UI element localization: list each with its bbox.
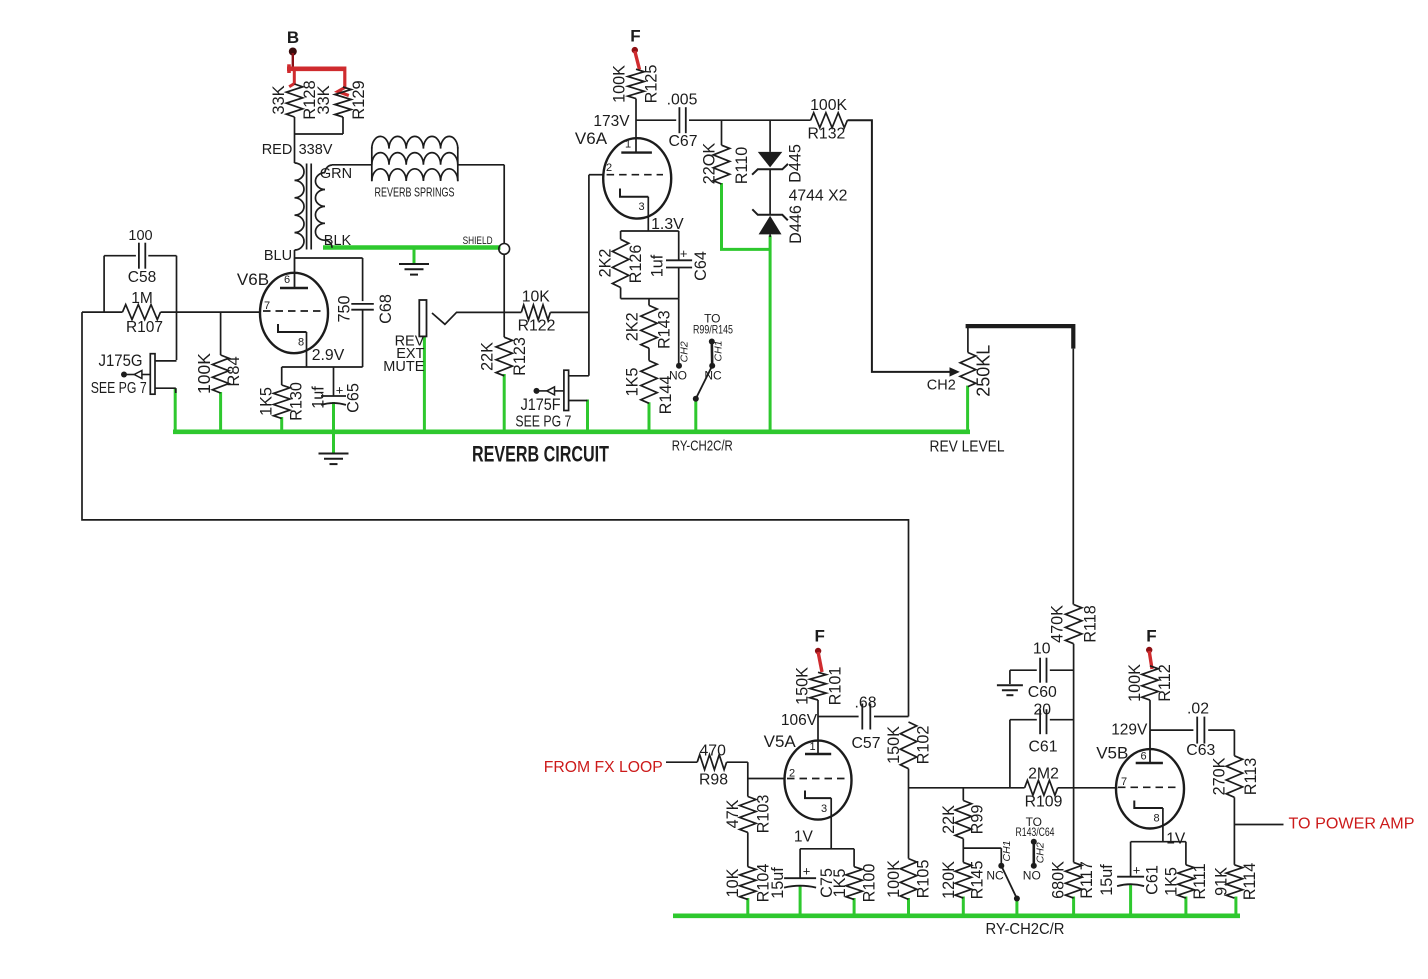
- svg-text:V6B: V6B: [237, 270, 269, 289]
- svg-text:100K: 100K: [810, 97, 847, 114]
- svg-text:1: 1: [625, 139, 631, 151]
- svg-text:C61: C61: [1029, 739, 1058, 756]
- svg-text:1K5: 1K5: [831, 869, 849, 898]
- svg-text:1: 1: [809, 741, 815, 753]
- svg-text:100K: 100K: [885, 860, 903, 898]
- svg-text:3: 3: [821, 803, 827, 815]
- svg-text:R114: R114: [1241, 863, 1259, 901]
- svg-text:R99: R99: [968, 805, 986, 835]
- svg-text:129V: 129V: [1111, 722, 1148, 739]
- svg-text:SHIELD: SHIELD: [463, 235, 493, 247]
- svg-text:R103: R103: [754, 795, 772, 834]
- svg-text:10: 10: [1033, 641, 1051, 658]
- svg-text:NO: NO: [1023, 869, 1041, 883]
- svg-text:R107: R107: [126, 319, 163, 336]
- svg-text:V6A: V6A: [575, 129, 608, 148]
- svg-text:SEE PG 7: SEE PG 7: [515, 414, 571, 431]
- svg-text:R98: R98: [699, 772, 728, 789]
- svg-text:.005: .005: [667, 92, 698, 109]
- svg-text:2: 2: [789, 768, 795, 780]
- svg-text:173V: 173V: [593, 113, 630, 130]
- svg-text:470K: 470K: [1048, 605, 1066, 643]
- svg-text:R143/C64: R143/C64: [1016, 825, 1055, 839]
- svg-text:2M2: 2M2: [1028, 766, 1059, 783]
- svg-text:BLU: BLU: [264, 248, 292, 264]
- svg-text:+: +: [680, 246, 688, 261]
- svg-text:C63: C63: [1186, 742, 1215, 759]
- svg-text:V5A: V5A: [764, 732, 797, 751]
- svg-text:R132: R132: [808, 126, 846, 143]
- svg-text:R109: R109: [1025, 794, 1063, 811]
- svg-text:22K: 22K: [478, 342, 496, 371]
- svg-text:BLK: BLK: [324, 233, 352, 249]
- svg-text:33K: 33K: [270, 85, 288, 114]
- svg-text:NC: NC: [986, 869, 1004, 883]
- svg-text:+: +: [803, 864, 811, 879]
- svg-text:REVERB SPRINGS: REVERB SPRINGS: [375, 185, 455, 200]
- svg-text:R84: R84: [225, 356, 243, 386]
- svg-text:R118: R118: [1081, 605, 1099, 643]
- svg-text:F: F: [630, 27, 640, 46]
- svg-text:C65: C65: [344, 383, 362, 413]
- svg-text:270K: 270K: [1211, 757, 1229, 795]
- svg-text:R143: R143: [655, 310, 673, 349]
- svg-text:SEE PG 7: SEE PG 7: [91, 380, 147, 397]
- svg-text:7: 7: [264, 300, 270, 312]
- svg-text:CH2: CH2: [927, 378, 956, 394]
- svg-text:10K: 10K: [724, 868, 742, 897]
- svg-text:.68: .68: [855, 695, 877, 712]
- svg-text:R100: R100: [861, 864, 879, 903]
- svg-text:FROM FX LOOP: FROM FX LOOP: [544, 759, 663, 776]
- svg-text:10K: 10K: [522, 289, 551, 306]
- svg-text:NO: NO: [669, 369, 687, 383]
- svg-text:.02: .02: [1187, 701, 1209, 718]
- svg-text:MUTE: MUTE: [383, 359, 424, 375]
- svg-text:22K: 22K: [940, 805, 958, 834]
- svg-text:8: 8: [1153, 813, 1159, 825]
- svg-text:100K: 100K: [194, 353, 214, 394]
- svg-text:47K: 47K: [724, 799, 742, 828]
- svg-text:R113: R113: [1242, 758, 1260, 796]
- svg-text:R117: R117: [1078, 861, 1096, 899]
- svg-text:15uf: 15uf: [1098, 864, 1116, 896]
- svg-text:C60: C60: [1028, 684, 1057, 701]
- svg-text:100: 100: [128, 228, 152, 244]
- svg-text:R126: R126: [627, 245, 645, 284]
- svg-text:R112: R112: [1156, 664, 1174, 702]
- svg-text:1V: 1V: [1166, 831, 1186, 848]
- svg-text:33K: 33K: [315, 85, 333, 114]
- svg-text:106V: 106V: [781, 712, 818, 729]
- svg-text:RED: RED: [262, 142, 293, 158]
- svg-text:2.9V: 2.9V: [312, 347, 345, 364]
- svg-text:R129: R129: [350, 80, 368, 119]
- svg-text:R145: R145: [968, 861, 986, 900]
- svg-text:RY-CH2C/R: RY-CH2C/R: [672, 439, 733, 455]
- svg-text:250KL: 250KL: [974, 345, 994, 397]
- svg-text:CH1: CH1: [713, 340, 725, 361]
- svg-text:6: 6: [284, 274, 290, 286]
- svg-text:V5B: V5B: [1096, 744, 1128, 763]
- svg-text:R130: R130: [287, 382, 305, 421]
- svg-text:8: 8: [298, 337, 304, 349]
- svg-text:+: +: [1133, 863, 1141, 878]
- svg-text:TO POWER AMP: TO POWER AMP: [1289, 816, 1415, 833]
- svg-text:J175F: J175F: [521, 396, 561, 414]
- svg-text:R102: R102: [915, 726, 933, 765]
- svg-text:B: B: [287, 28, 299, 47]
- svg-text:C67: C67: [669, 133, 698, 150]
- svg-text:R105: R105: [915, 860, 933, 899]
- svg-text:R99/R145: R99/R145: [693, 323, 733, 337]
- svg-text:100K: 100K: [1126, 664, 1144, 702]
- svg-text:R101: R101: [826, 667, 844, 706]
- svg-text:120K: 120K: [940, 861, 958, 899]
- svg-text:C58: C58: [128, 269, 156, 286]
- svg-text:6: 6: [1140, 751, 1146, 763]
- svg-text:R110: R110: [733, 147, 751, 185]
- svg-text:2K2: 2K2: [596, 249, 614, 278]
- svg-text:REV LEVEL: REV LEVEL: [930, 439, 1005, 456]
- svg-text:GRN: GRN: [320, 166, 352, 182]
- svg-text:1K5: 1K5: [624, 368, 642, 397]
- svg-text:750: 750: [335, 295, 353, 322]
- svg-text:680K: 680K: [1049, 861, 1067, 899]
- svg-text:1K5: 1K5: [258, 387, 276, 416]
- svg-text:7: 7: [1121, 776, 1127, 788]
- svg-text:R122: R122: [518, 318, 556, 335]
- svg-text:150K: 150K: [794, 667, 812, 705]
- svg-text:D445: D445: [786, 144, 804, 183]
- svg-text:J175G: J175G: [99, 352, 143, 370]
- svg-text:R104: R104: [754, 864, 772, 903]
- svg-text:2K2: 2K2: [624, 312, 642, 341]
- svg-text:D446: D446: [787, 205, 805, 244]
- svg-text:RY-CH2C/R: RY-CH2C/R: [986, 921, 1065, 938]
- svg-text:F: F: [815, 627, 825, 646]
- svg-text:R125: R125: [643, 65, 661, 104]
- svg-text:1M: 1M: [131, 290, 153, 307]
- svg-text:C68: C68: [377, 294, 395, 324]
- svg-text:1V: 1V: [794, 829, 814, 846]
- svg-text:100K: 100K: [611, 65, 629, 103]
- svg-text:150K: 150K: [885, 726, 903, 764]
- svg-text:CH1: CH1: [1001, 840, 1013, 861]
- svg-text:+: +: [336, 383, 344, 398]
- svg-text:4744 X2: 4744 X2: [789, 188, 848, 205]
- svg-text:CH2: CH2: [678, 341, 690, 362]
- svg-text:1K5: 1K5: [1162, 867, 1180, 896]
- svg-text:2: 2: [606, 162, 612, 174]
- svg-text:91K: 91K: [1212, 867, 1230, 896]
- svg-text:C61: C61: [1143, 865, 1161, 895]
- svg-text:3: 3: [638, 201, 644, 213]
- svg-text:338V: 338V: [299, 142, 333, 158]
- svg-text:R111: R111: [1191, 863, 1209, 899]
- svg-text:1uf: 1uf: [649, 254, 667, 277]
- svg-text:C64: C64: [692, 251, 710, 281]
- svg-text:CH2: CH2: [1034, 842, 1046, 863]
- svg-text:22OK: 22OK: [700, 143, 718, 185]
- svg-text:F: F: [1146, 627, 1156, 646]
- svg-text:20: 20: [1034, 702, 1052, 719]
- svg-text:470: 470: [700, 743, 727, 760]
- svg-text:C57: C57: [852, 735, 881, 752]
- svg-text:1uf: 1uf: [310, 386, 328, 409]
- svg-text:R123: R123: [511, 337, 529, 376]
- svg-text:REVERB CIRCUIT: REVERB CIRCUIT: [472, 442, 609, 467]
